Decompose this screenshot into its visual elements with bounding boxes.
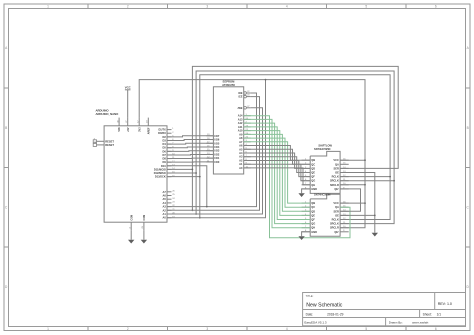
svg-text:6: 6 [435,5,437,9]
svg-text:D11/MOSI: D11/MOSI [154,167,166,171]
U2 right-side control pins /OE /CE /WE with inversion bubbles [238,91,251,110]
svg-text:4: 4 [286,5,288,9]
ground symbol for OE net right of U4 [374,231,376,233]
svg-text:COM: COM [143,215,146,221]
svg-text:D4: D4 [162,142,166,146]
svg-text:RCLK: RCLK [332,218,339,222]
svg-text:1: 1 [47,5,49,9]
svg-text:1/1: 1/1 [437,312,442,316]
IC U2 EEPROM AT28C256 [213,80,243,174]
svg-text:SRCLR: SRCLR [330,183,339,187]
svg-text:+5V: +5V [127,127,130,132]
svg-text:New Schematic: New Schematic [306,302,342,308]
svg-text:REV: 1.0: REV: 1.0 [438,302,452,306]
svg-text:A1: A1 [239,162,243,166]
svg-text:D12/MISO: D12/MISO [154,171,166,175]
wire VCC flag to U1 +5V pin [127,90,129,118]
wire U3 QH' to U4 SER (register chaining) [340,189,360,211]
svg-text:RESET: RESET [105,139,114,143]
svg-text:VIN: VIN [118,127,121,131]
wire and ground for U4 GND pin [302,232,311,235]
svg-text:D5: D5 [162,146,166,150]
svg-text:D0/RX: D0/RX [158,131,166,135]
svg-text:Date:: Date: [306,312,314,316]
svg-text:SER: SER [334,166,339,170]
svg-text:B: B [467,126,469,130]
svg-text:2: 2 [172,132,174,134]
svg-text:QH': QH' [334,230,339,234]
svg-text:QB: QB [311,201,315,205]
svg-text:VCC: VCC [333,158,339,162]
svg-text:A5: A5 [239,147,243,151]
svg-text:QF: QF [311,175,315,179]
svg-text:QE: QE [311,213,315,217]
svg-text:D10: D10 [161,164,166,168]
svg-text:5: 5 [365,5,367,9]
svg-text:QE: QE [311,171,315,175]
svg-text:RCLK: RCLK [332,175,339,179]
wires A6..A0: U2 to U3 QB..QH [244,146,311,185]
svg-text:D8: D8 [162,157,166,161]
U1 right-side pin stubs, labels and pin numbers [154,128,176,220]
IC U3 shift register SHIFTLOW SN74HC595N [302,144,349,194]
svg-text:QA: QA [335,162,339,166]
svg-text:C: C [5,205,8,209]
svg-text:/OE: /OE [238,91,243,95]
svg-text:SN74HC595N: SN74HC595N [314,147,331,151]
svg-text:ARDUINO_NANO: ARDUINO_NANO [96,112,120,116]
svg-text:3V3: 3V3 [138,127,141,132]
svg-text:4: 4 [286,327,288,331]
svg-text:I/O3: I/O3 [214,149,219,153]
wire net A2//CE: U1 A2 to U2 /CE [167,97,260,211]
svg-text:I/O1: I/O1 [214,156,219,160]
svg-text:I/O2: I/O2 [214,152,219,156]
wire data bus: U1 D2..D9 to U2 I/O7..I/O0 [167,136,213,162]
ground symbol below U1 COM pin 4 [130,230,132,240]
svg-text:AT28C256: AT28C256 [222,83,235,87]
svg-text:A13: A13 [238,117,243,121]
U2 right-side address pins A14..A0 [238,114,251,170]
svg-text:D1/TX: D1/TX [158,128,166,132]
title block [303,293,466,326]
svg-text:amer.zavlah: amer.zavlah [412,320,429,324]
svg-text:/WE: /WE [238,106,243,110]
svg-text:1: 1 [172,128,174,130]
U1 top pins VIN +5V 3V3 AREF [118,118,151,135]
svg-text:A7: A7 [162,190,166,194]
svg-text:SN74HC595N: SN74HC595N [314,193,331,197]
svg-text:A4: A4 [239,151,243,155]
svg-text:A2: A2 [239,158,243,162]
svg-text:A11: A11 [238,125,243,129]
svg-text:A9: A9 [239,132,243,136]
IC U1 microcontroller ARDUINO_NANO [96,109,168,223]
svg-text:SRCLR: SRCLR [330,226,339,230]
svg-text:6: 6 [435,327,437,331]
svg-text:25: 25 [172,194,175,196]
svg-text:A8: A8 [239,136,243,140]
svg-text:D7: D7 [162,153,166,157]
wire net D13/RCLK: U1 D13 via third loop to U3/U4 RCLK [167,75,391,220]
svg-text:A0: A0 [162,216,166,220]
U1 bottom COM pins with pin numbers [129,215,146,230]
svg-text:I/O5: I/O5 [214,141,219,145]
IC U4 shift register SN74HC595N [302,193,349,237]
svg-text:SHIFTLOW: SHIFTLOW [318,144,332,148]
svg-text:QC: QC [311,162,315,166]
U2 left-side data pins I/O7..I/O0 [206,134,219,164]
svg-text:QC: QC [311,205,315,209]
svg-text:QA: QA [335,205,339,209]
svg-text:A: A [5,46,8,50]
svg-text:A4: A4 [162,201,166,205]
svg-text:VCC: VCC [125,86,131,90]
svg-text:QD: QD [311,209,315,213]
svg-text:2: 2 [127,327,129,331]
svg-text:B: B [5,126,7,130]
svg-text:QG: QG [311,179,315,183]
wire net A1//WE: U1 A1 to U2 /WE [167,108,263,214]
svg-text:SER: SER [334,209,339,213]
svg-text:Drawn By:: Drawn By: [389,320,403,324]
svg-text:A7: A7 [239,140,243,144]
svg-text:A6: A6 [239,144,243,148]
svg-text:QF: QF [311,218,315,222]
svg-text:COM: COM [130,215,133,221]
svg-text:I/O7: I/O7 [214,134,219,138]
svg-text:D: D [467,285,470,289]
svg-text:Sheet:: Sheet: [423,312,432,316]
svg-text:A5: A5 [162,197,166,201]
svg-text:A3: A3 [239,155,243,159]
svg-text:I/O4: I/O4 [214,145,219,149]
U1 left RESET pins (pins 3 and 28) [93,138,114,147]
svg-text:24: 24 [172,198,175,200]
svg-text:D9: D9 [162,160,166,164]
svg-text:QH: QH [311,183,315,187]
svg-text:A14: A14 [238,114,243,118]
ground symbol below U1 COM pin 29 [143,230,145,240]
svg-text:QG: QG [311,222,315,226]
svg-text:QB: QB [311,158,315,162]
svg-text:SRCLK: SRCLK [330,179,339,183]
svg-text:I/O6: I/O6 [214,138,219,142]
svg-text:2: 2 [127,5,129,9]
wire net D11/SER: U1 D11 via top loop to U3 SER [167,66,398,211]
svg-text:RESET: RESET [105,143,114,147]
green wire A14: U2 A14 under U4 to U4 QA [244,116,350,238]
svg-text:D3: D3 [162,138,166,142]
svg-text:QH': QH' [334,187,339,191]
svg-text:26: 26 [172,190,175,192]
wire VCC net: U1 3V3 pin up and right, down right side to U3/U4 VCC and SRCLR pins [139,80,366,228]
svg-text:SRCLK: SRCLK [330,222,339,226]
wire net A3//OE: U1 A3 and D10 to U2 /OE [167,93,257,208]
svg-text:OE: OE [335,171,339,175]
svg-text:A: A [467,46,470,50]
svg-text:A2: A2 [162,208,166,212]
svg-text:D13/SCK: D13/SCK [155,175,166,179]
svg-text:C: C [467,205,470,209]
svg-text:QH: QH [311,226,315,230]
svg-text:I/O0: I/O0 [214,160,219,164]
wire and ground for U3 GND pin [302,189,311,192]
svg-text:D: D [5,285,8,289]
svg-text:D2: D2 [162,135,166,139]
svg-text:A10: A10 [238,129,243,133]
svg-text:5: 5 [365,327,367,331]
svg-text:/CE: /CE [238,95,243,99]
svg-text:OE: OE [335,213,339,217]
svg-text:AREF: AREF [147,127,150,134]
svg-text:2018-01-29: 2018-01-29 [327,312,344,316]
svg-text:A1: A1 [162,212,166,216]
green wires A13..A7: U2 to U4 QH..QB [244,119,311,227]
svg-text:A12: A12 [238,121,243,125]
svg-text:A6: A6 [162,194,166,198]
svg-text:A3: A3 [162,205,166,209]
svg-text:GND: GND [311,230,317,234]
svg-text:GND: GND [311,187,317,191]
svg-text:A0: A0 [239,166,243,170]
svg-text:EasyEDA V5.1.3: EasyEDA V5.1.3 [304,320,327,324]
power flag VCC above U1 [125,86,131,90]
svg-text:D6: D6 [162,149,166,153]
svg-text:3: 3 [206,5,208,9]
svg-text:TITLE:: TITLE: [306,294,314,298]
svg-text:VCC: VCC [333,201,339,205]
svg-text:3: 3 [206,327,208,331]
wire OE net: U3 OE and U4 OE tied to ground [340,173,376,231]
svg-text:23: 23 [172,202,175,204]
svg-text:1: 1 [47,327,49,331]
wire net D12/SRCLK: U1 D12 via second loop to U3/U4 SRCLK [167,71,395,224]
wire net A0/VCC: U1 A0 up to VCC loop [167,79,266,218]
svg-text:QD: QD [311,166,315,170]
